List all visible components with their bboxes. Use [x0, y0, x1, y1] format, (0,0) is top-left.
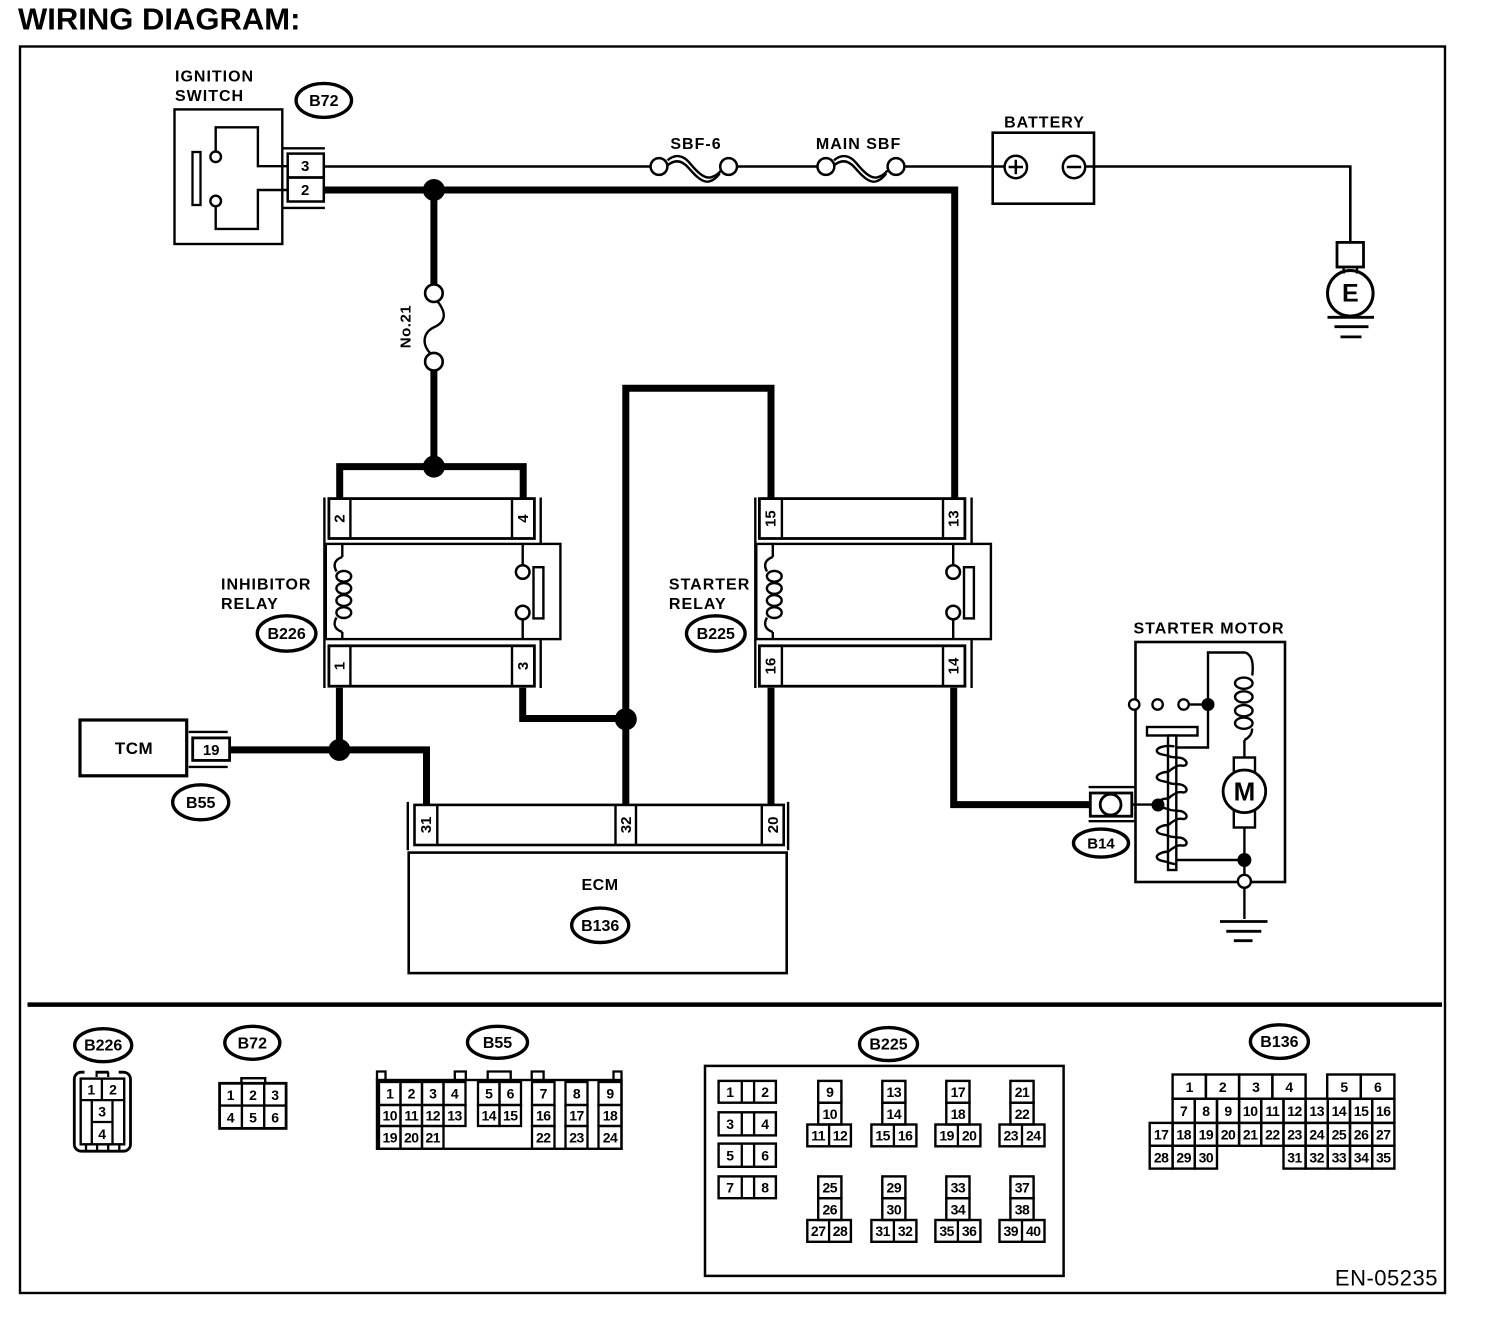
TCM U1 box [80, 720, 187, 776]
connector B226 housing [74, 1072, 130, 1151]
svg-text:5: 5 [485, 1086, 493, 1102]
pin 3 cavity (B136) [1239, 1075, 1272, 1099]
wire starter relay pin14 to connector B14 [954, 688, 1091, 805]
wire TCM pin19 to node [230, 746, 340, 753]
svg-text:3: 3 [98, 1104, 106, 1120]
svg-text:7: 7 [540, 1086, 548, 1102]
pin 17 cavity (B55) [566, 1105, 588, 1126]
pins 17-20 cluster (B225) [946, 1081, 969, 1103]
svg-text:IGNITION: IGNITION [175, 69, 254, 86]
svg-text:19: 19 [939, 1128, 954, 1144]
svg-text:12: 12 [1287, 1103, 1302, 1119]
inhibitor relay contact [522, 544, 524, 565]
svg-text:9: 9 [1224, 1103, 1232, 1119]
battery negative terminal [1063, 156, 1085, 178]
pin 3 box [288, 154, 324, 178]
svg-text:20: 20 [765, 817, 782, 834]
svg-text:38: 38 [1015, 1201, 1030, 1217]
ECM connector dividers [436, 805, 438, 845]
pin 10 cavity (B136) [1239, 1099, 1261, 1123]
svg-text:WIRING DIAGRAM:: WIRING DIAGRAM: [18, 2, 300, 37]
pin 34 cavity (B136) [1350, 1146, 1372, 1169]
pin 8 cavity (B55) [566, 1082, 588, 1105]
wire B14 into starter motor [1132, 803, 1158, 805]
wire to chassis ground [1243, 888, 1245, 919]
pin 20 cavity (B136) [1217, 1123, 1239, 1146]
svg-text:2: 2 [249, 1087, 257, 1103]
pins 1-2 cavity pair (B225) [719, 1081, 776, 1103]
pin 29 cavity (B136) [1173, 1146, 1195, 1169]
inhibitor relay right rail [540, 498, 542, 545]
connector B225 housing [705, 1066, 1064, 1276]
svg-text:25: 25 [1332, 1127, 1347, 1143]
pin 13 cavity (B55) [444, 1105, 466, 1126]
junction inhibitor relay feed [423, 456, 445, 478]
svg-text:20: 20 [404, 1130, 419, 1146]
svg-text:23: 23 [1287, 1127, 1302, 1143]
inhibitor relay bottom connector [329, 646, 535, 686]
svg-text:ECM: ECM [581, 877, 618, 894]
svg-text:19: 19 [1199, 1127, 1214, 1143]
svg-text:3: 3 [271, 1087, 279, 1103]
pins 13-16 cluster (B225) [882, 1081, 905, 1103]
svg-text:13: 13 [946, 510, 963, 527]
pin 4 cavity (B136) [1272, 1075, 1305, 1099]
svg-text:24: 24 [1026, 1128, 1041, 1144]
svg-text:1: 1 [726, 1084, 734, 1100]
svg-text:B136: B136 [581, 918, 619, 935]
pins 7-8 cavity pair (B225) [719, 1176, 776, 1198]
svg-text:14: 14 [946, 657, 963, 674]
connector B226 cavity grid [81, 1079, 125, 1145]
pin 20 cavity (B55) [401, 1126, 423, 1149]
starter motor plunger stem [1168, 736, 1176, 871]
pin 11 cavity (B55) [401, 1105, 423, 1126]
ECM top connector [415, 805, 784, 845]
wire ignition internal pole 3 [216, 127, 288, 166]
pin 19 cavity (B55) [379, 1126, 401, 1149]
inhibitor relay top connector [329, 499, 535, 539]
svg-text:16: 16 [1376, 1103, 1391, 1119]
svg-text:14: 14 [481, 1108, 496, 1124]
svg-text:16: 16 [763, 658, 780, 675]
pin 4 cavity (B55) [444, 1082, 466, 1105]
svg-text:E: E [1342, 280, 1359, 308]
pin 21 cavity (B136) [1239, 1123, 1261, 1146]
pin 22 cavity (B136) [1261, 1123, 1283, 1146]
wire inhibitor pin3 to node [523, 688, 626, 719]
svg-text:8: 8 [573, 1086, 581, 1102]
wire fuse SBF-6 to fuse MAIN SBF [737, 165, 818, 168]
wire fuse No.21 to relay bar [430, 370, 437, 469]
svg-text:SBF-6: SBF-6 [670, 136, 721, 153]
wire B+ thin: pin3 to fuse SBF-6 [324, 165, 651, 168]
starter relay contact [952, 544, 954, 565]
ECM connector left rail [407, 802, 409, 850]
svg-text:3: 3 [301, 158, 310, 175]
pins 33-36 cluster (B225) [946, 1176, 969, 1198]
ground E connector block [1337, 242, 1364, 267]
inhibitor relay bottom connector dividers [349, 646, 351, 686]
svg-text:2: 2 [301, 182, 310, 199]
wire plunger to ground node [1177, 859, 1244, 861]
svg-text:30: 30 [887, 1201, 902, 1217]
junction motor ground node [1237, 853, 1251, 867]
ignition switch contact a [210, 152, 221, 163]
section divider line [28, 1002, 1443, 1007]
svg-text:3: 3 [1252, 1079, 1260, 1095]
svg-text:RELAY: RELAY [221, 596, 279, 613]
svg-text:10: 10 [382, 1108, 397, 1124]
svg-text:17: 17 [951, 1084, 966, 1100]
svg-text:6: 6 [271, 1110, 279, 1126]
svg-text:M: M [1234, 777, 1256, 807]
pin 9 cavity (B136) [1217, 1099, 1239, 1123]
wire ECM pin32 to starter relay pin15 [626, 388, 771, 804]
starter motor terminal contact 2 [1152, 699, 1162, 709]
svg-text:27: 27 [1376, 1127, 1391, 1143]
svg-text:STARTER: STARTER [669, 577, 750, 594]
svg-text:TCM: TCM [115, 739, 153, 758]
svg-text:1: 1 [386, 1086, 394, 1102]
svg-text:9: 9 [826, 1084, 834, 1100]
svg-text:15: 15 [763, 510, 780, 527]
pins 3-4 cavity pair (B225) [719, 1112, 776, 1135]
svg-text:19: 19 [382, 1130, 397, 1146]
svg-text:19: 19 [203, 742, 220, 759]
svg-text:4: 4 [515, 514, 532, 523]
battery BAT1 body [993, 133, 1094, 204]
svg-text:37: 37 [1015, 1180, 1030, 1196]
ground node E [1328, 271, 1374, 317]
svg-text:24: 24 [1309, 1127, 1324, 1143]
svg-text:7: 7 [726, 1180, 734, 1196]
ECM connector right rail [787, 802, 789, 850]
chassis ground symbol [1220, 920, 1268, 923]
svg-text:3: 3 [726, 1116, 734, 1132]
pin 18 cavity (B55) [599, 1105, 622, 1126]
connector B72 rail top [283, 147, 325, 149]
pins 9-12 cluster (B225) [818, 1081, 841, 1103]
svg-text:23: 23 [1003, 1128, 1018, 1144]
svg-text:2: 2 [408, 1086, 416, 1102]
pin 1 cavity (B55) [379, 1082, 401, 1105]
svg-text:18: 18 [1176, 1127, 1191, 1143]
starter motor return spring [1157, 746, 1187, 864]
inhibitor relay body [326, 544, 561, 639]
svg-text:4: 4 [98, 1126, 106, 1142]
pins 21-24 cluster (B225) [1010, 1081, 1033, 1103]
svg-text:12: 12 [425, 1108, 440, 1124]
svg-text:16: 16 [898, 1128, 913, 1144]
pin 17 cavity (B136) [1150, 1123, 1173, 1146]
svg-text:26: 26 [1354, 1127, 1369, 1143]
starter motor plunger T-bar [1147, 727, 1198, 736]
pins 37-40 cluster (B225) [1010, 1176, 1033, 1198]
starter relay top connector [759, 499, 965, 539]
battery positive terminal [1005, 156, 1027, 178]
starter relay body [756, 544, 991, 639]
svg-text:2: 2 [109, 1082, 117, 1098]
connector label B72 (schematic) [296, 83, 351, 117]
svg-text:4: 4 [227, 1110, 235, 1126]
wire solenoid node to plunger [1177, 705, 1208, 748]
pin 32 cavity (B136) [1306, 1146, 1328, 1169]
svg-text:33: 33 [951, 1180, 966, 1196]
pin 35 cavity (B136) [1372, 1146, 1394, 1169]
svg-text:31: 31 [875, 1223, 890, 1239]
svg-text:40: 40 [1026, 1223, 1041, 1239]
svg-text:B226: B226 [84, 1038, 122, 1055]
svg-text:6: 6 [507, 1086, 515, 1102]
pin 23 cavity (B55) [566, 1126, 588, 1149]
svg-text:B136: B136 [1260, 1034, 1298, 1051]
ignition switch SW1 body [175, 109, 283, 244]
svg-text:6: 6 [761, 1147, 769, 1163]
svg-text:SWITCH: SWITCH [175, 88, 244, 105]
svg-text:11: 11 [811, 1128, 826, 1144]
svg-text:B55: B55 [186, 795, 215, 812]
wire solenoid node to field coil [1208, 653, 1246, 705]
svg-text:17: 17 [1154, 1127, 1169, 1143]
svg-text:9: 9 [606, 1086, 614, 1102]
pin 12 cavity (B136) [1284, 1099, 1306, 1123]
svg-text:21: 21 [1243, 1127, 1258, 1143]
connector B55 rail top [189, 731, 228, 733]
svg-text:31: 31 [1287, 1149, 1302, 1165]
svg-text:18: 18 [603, 1108, 618, 1124]
connector label B226 (schematic) [257, 616, 316, 651]
inhibitor relay coil [341, 544, 343, 557]
svg-text:32: 32 [618, 817, 635, 834]
svg-text:20: 20 [1221, 1127, 1236, 1143]
inhibitor relay left rail [323, 498, 325, 689]
svg-text:22: 22 [536, 1130, 551, 1146]
pin 27 cavity (B136) [1372, 1123, 1394, 1146]
starter relay right rail [970, 498, 972, 545]
fuse No.21 [425, 284, 443, 302]
pin 18 cavity (B136) [1173, 1123, 1195, 1146]
svg-text:2: 2 [332, 514, 349, 522]
pin 26 cavity (B136) [1350, 1123, 1372, 1146]
svg-text:29: 29 [887, 1180, 902, 1196]
svg-text:B55: B55 [483, 1035, 512, 1052]
pin 15 cavity (B55) [500, 1105, 522, 1126]
pin 6 cavity (B136) [1361, 1075, 1395, 1099]
pin 7 cavity (B136) [1173, 1099, 1195, 1123]
svg-text:RELAY: RELAY [669, 596, 727, 613]
pin 16 cavity (B55) [532, 1105, 555, 1126]
connector label B55 (pinout) [468, 1026, 528, 1058]
wire TCM node to ECM pin31 [339, 750, 426, 805]
svg-text:1: 1 [227, 1087, 235, 1103]
pin 21 cavity (B55) [422, 1126, 444, 1149]
svg-text:1: 1 [1186, 1079, 1194, 1095]
starter relay bottom connector [759, 646, 965, 686]
svg-text:24: 24 [603, 1130, 618, 1146]
svg-text:21: 21 [425, 1130, 440, 1146]
pin 7 cavity (B55) [532, 1082, 555, 1105]
fuse SBF-6 [651, 158, 668, 175]
pin 9 cavity (B55) [599, 1082, 622, 1105]
pin 19 cavity (B136) [1195, 1123, 1217, 1146]
connector B226 pin stubs [85, 1144, 87, 1151]
svg-text:3: 3 [429, 1086, 437, 1102]
pin 2 cavity (B136) [1206, 1075, 1239, 1099]
pin 31 cavity (B136) [1284, 1146, 1306, 1169]
pin 30 cavity (B136) [1195, 1146, 1217, 1169]
svg-text:36: 36 [962, 1223, 977, 1239]
svg-text:8: 8 [1202, 1103, 1210, 1119]
connector B14 rail bottom [1089, 820, 1135, 822]
pin 6 cavity (B55) [500, 1082, 522, 1105]
junction solenoid contact node [1202, 698, 1215, 711]
svg-text:27: 27 [811, 1223, 826, 1239]
wire inhibitor pin1 down [336, 688, 343, 752]
svg-text:17: 17 [569, 1108, 584, 1124]
starter motor case terminal [1238, 875, 1251, 888]
pin 1 cavity (B136) [1173, 1075, 1206, 1099]
svg-text:8: 8 [761, 1180, 769, 1196]
svg-text:STARTER MOTOR: STARTER MOTOR [1133, 621, 1284, 638]
pin 12 cavity (B55) [422, 1105, 444, 1126]
starter relay left rail [754, 498, 756, 689]
svg-text:15: 15 [503, 1108, 518, 1124]
connector B55 rail bottom [189, 766, 228, 768]
svg-text:MAIN SBF: MAIN SBF [816, 136, 901, 153]
starter motor field coil [1246, 653, 1253, 676]
ECM U2 box [409, 853, 787, 974]
junction ECM pin32 node [615, 708, 637, 730]
pin 5 cavity (B136) [1327, 1075, 1361, 1099]
wire fuse MAIN SBF to battery [905, 165, 1005, 168]
pin 5 cavity (B55) [478, 1082, 500, 1105]
junction plunger feed node [1152, 799, 1165, 812]
pin 14 cavity (B136) [1328, 1099, 1350, 1123]
svg-text:18: 18 [951, 1106, 966, 1122]
connector label B72 (pinout) [225, 1026, 280, 1059]
svg-text:31: 31 [418, 817, 435, 834]
connector B72 rail bottom [283, 207, 325, 209]
svg-text:25: 25 [823, 1180, 838, 1196]
svg-text:1: 1 [87, 1082, 95, 1098]
svg-text:2: 2 [1219, 1079, 1227, 1095]
svg-text:21: 21 [1015, 1084, 1030, 1100]
starter motor terminal contact 1 [1129, 699, 1139, 709]
pin 14 cavity (B55) [478, 1105, 500, 1126]
svg-text:5: 5 [249, 1110, 257, 1126]
starter relay bottom connector dividers [781, 646, 783, 686]
svg-text:23: 23 [569, 1130, 584, 1146]
wire contact3 to solenoid node [1189, 703, 1202, 705]
svg-text:34: 34 [951, 1201, 966, 1217]
svg-text:1: 1 [332, 662, 349, 670]
svg-text:13: 13 [1309, 1103, 1324, 1119]
svg-text:15: 15 [875, 1128, 890, 1144]
svg-text:28: 28 [1154, 1149, 1169, 1165]
svg-text:14: 14 [1332, 1103, 1347, 1119]
svg-text:BATTERY: BATTERY [1004, 115, 1085, 132]
svg-text:13: 13 [447, 1108, 462, 1124]
starter relay coil [772, 544, 774, 557]
inhibitor relay top connector dividers [349, 499, 351, 539]
wire starter relay pin16 to ECM pin20 [768, 688, 775, 805]
svg-text:No.21: No.21 [398, 305, 415, 348]
pin 28 cavity (B136) [1150, 1146, 1173, 1169]
svg-text:33: 33 [1332, 1149, 1347, 1165]
pin 16 cavity (B136) [1372, 1099, 1394, 1123]
svg-text:B226: B226 [267, 626, 305, 643]
ground E neck [1342, 266, 1344, 274]
junction bus / No.21 feed [423, 179, 445, 201]
svg-text:10: 10 [1243, 1103, 1258, 1119]
svg-text:35: 35 [939, 1223, 954, 1239]
connector B14 box [1090, 793, 1132, 816]
connector label B225 (pinout) [860, 1028, 918, 1061]
svg-text:B14: B14 [1087, 836, 1115, 853]
ground symbol under E [1328, 316, 1375, 319]
svg-text:INHIBITOR: INHIBITOR [221, 577, 311, 594]
connector B14 terminal [1100, 794, 1121, 815]
wire ignition internal pole 2 [216, 190, 288, 229]
svg-text:14: 14 [887, 1106, 902, 1122]
pin 19 box [193, 738, 230, 761]
connector B72 tab [241, 1078, 265, 1083]
connector B14 rail top [1089, 786, 1135, 788]
svg-text:28: 28 [833, 1223, 848, 1239]
pin 24 cavity (B55) [599, 1126, 622, 1149]
pin 22 cavity (B55) [532, 1126, 555, 1149]
svg-text:16: 16 [536, 1108, 551, 1124]
starter motor terminal contact 3 [1178, 699, 1188, 709]
svg-text:4: 4 [451, 1086, 459, 1102]
pin 25 cavity (B136) [1328, 1123, 1350, 1146]
pin 3 cavity (B55) [422, 1082, 444, 1105]
starter motor armature M [1234, 758, 1255, 774]
connector B72 grid [241, 1083, 243, 1128]
fuse MAIN SBF [818, 158, 835, 175]
pin 8 cavity (B136) [1195, 1099, 1217, 1123]
svg-text:10: 10 [823, 1106, 838, 1122]
svg-text:B72: B72 [309, 93, 338, 110]
ignition switch contact b [210, 196, 221, 207]
pin 33 cavity (B136) [1328, 1146, 1350, 1169]
connector B55 housing [377, 1080, 622, 1149]
connector label B226 (pinout) [75, 1029, 132, 1062]
pins 25-28 cluster (B225) [818, 1176, 841, 1198]
ignition switch key bar [193, 152, 201, 205]
svg-text:4: 4 [761, 1116, 769, 1132]
svg-text:3: 3 [515, 662, 532, 670]
wire down to fuse No.21 [430, 190, 437, 285]
starter relay top connector dividers [781, 499, 783, 539]
svg-text:12: 12 [833, 1128, 848, 1144]
wire thick bus pin2 to starter relay pin13 [324, 190, 955, 498]
pins 29-32 cluster (B225) [882, 1176, 905, 1198]
pin 13 cavity (B136) [1306, 1099, 1328, 1123]
connector label B136 (pinout) [1250, 1025, 1308, 1059]
svg-text:15: 15 [1354, 1103, 1369, 1119]
wire battery negative to ground E [1085, 167, 1350, 243]
svg-text:13: 13 [887, 1084, 902, 1100]
connector label B136 (schematic) [572, 908, 629, 942]
pin 2 cavity (B55) [401, 1082, 423, 1105]
wire bar over inhibitor relay [340, 467, 524, 498]
svg-text:B225: B225 [697, 626, 735, 643]
starter motor M1 housing [1136, 642, 1286, 882]
pin 11 cavity (B136) [1261, 1099, 1283, 1123]
svg-text:22: 22 [1015, 1106, 1030, 1122]
